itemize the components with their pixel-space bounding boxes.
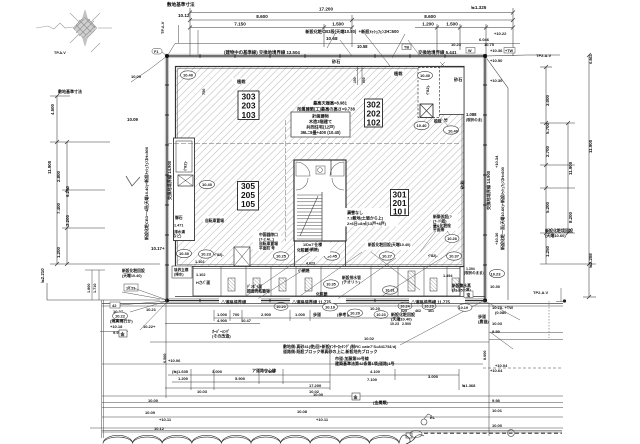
svg-text:7.150: 7.150 <box>234 22 246 27</box>
svg-text:+10.50: +10.50 <box>490 58 503 63</box>
svg-text:10.19: 10.19 <box>459 306 469 310</box>
svg-text:17.200: 17.200 <box>309 383 322 388</box>
gravel room top-right <box>439 67 464 115</box>
svg-text:新設化粧CB3段(天端10.80) +新設ﾒｯｼｭﾌｪﾝｽ: 新設化粧CB3段(天端10.80) +新設ﾒｯｼｭﾌｪﾝｽH=600 <box>305 28 399 35</box>
svg-text:+10.22: +10.22 <box>494 31 507 36</box>
svg-text:TB: TB <box>404 46 409 50</box>
svg-text:新設集水蒸: 新設集水蒸 <box>452 283 471 288</box>
svg-text:1.250: 1.250 <box>545 245 550 257</box>
svg-text:10.68: 10.68 <box>326 36 338 41</box>
svg-text:新設化粧CB3〜4段(天端10.40)+新設ﾒｯｼｭﾌｪﾝｽ: 新設化粧CB3〜4段(天端10.40)+新設ﾒｯｼｭﾌｪﾝｽH=800 <box>143 146 149 240</box>
svg-text:10.40: 10.40 <box>183 73 194 78</box>
svg-text:+10.18: +10.18 <box>110 324 123 329</box>
svg-text:10 I: 10 I <box>393 207 406 217</box>
svg-text:1.500: 1.500 <box>332 22 344 27</box>
svg-text:10.09: 10.09 <box>145 410 156 415</box>
left bottom annotation <box>172 266 192 278</box>
svg-text:≒2.210: ≒2.210 <box>40 268 45 283</box>
unit note text <box>345 208 398 227</box>
sidewalk note lines <box>283 343 397 366</box>
svg-text:1.494: 1.494 <box>443 274 453 278</box>
leaders from top labels <box>131 25 520 82</box>
svg-text:750: 750 <box>202 89 206 95</box>
site boundary <box>165 54 487 303</box>
building hatched body <box>176 67 465 267</box>
svg-text:10.40: 10.40 <box>202 182 213 187</box>
svg-text:2.800: 2.800 <box>56 170 61 182</box>
project info text block <box>291 100 355 138</box>
svg-text:462: 462 <box>415 309 421 313</box>
svg-text:10.47: 10.47 <box>241 318 252 323</box>
svg-text:1.500: 1.500 <box>446 22 458 27</box>
svg-text:宝: 宝 <box>467 293 471 298</box>
svg-text:0.861: 0.861 <box>588 53 593 64</box>
svg-text:10.30: 10.30 <box>179 251 190 256</box>
svg-text:EL: EL <box>430 415 436 420</box>
svg-text:10.20: 10.20 <box>276 305 286 309</box>
svg-text:(排水): (排水) <box>174 272 184 277</box>
svg-text:10.40: 10.40 <box>416 123 427 128</box>
svg-text:10.00: 10.00 <box>492 423 503 428</box>
stall door arc <box>196 268 209 281</box>
svg-text:敷地基準寸法: 敷地基準寸法 <box>58 88 82 94</box>
svg-text:平面帯: 平面帯 <box>433 227 445 232</box>
svg-text:F1: F1 <box>154 50 158 54</box>
svg-text:5.200: 5.200 <box>545 201 550 213</box>
svg-text:1.088: 1.088 <box>466 112 477 117</box>
hall wall extensions <box>294 241 296 267</box>
svg-text:10.19: 10.19 <box>325 305 336 310</box>
svg-text:+10.36: +10.36 <box>490 48 503 53</box>
svg-text:中国器除口: 中国器除口 <box>259 232 278 237</box>
scallop curb <box>103 433 424 444</box>
svg-text:1.800: 1.800 <box>87 283 91 293</box>
svg-text:10.12: 10.12 <box>178 13 190 18</box>
svg-text:9.98: 9.98 <box>492 398 501 403</box>
small boxed marks on boundary <box>152 44 515 54</box>
svg-text:1.200: 1.200 <box>56 246 61 258</box>
svg-text:(その改造): (その改造) <box>212 333 231 339</box>
svg-text:ｲ’82)-: ｲ’82)- <box>214 252 224 257</box>
svg-text:1.102: 1.102 <box>196 273 206 277</box>
svg-text:10.37: 10.37 <box>449 254 460 259</box>
door arcs <box>296 162 344 190</box>
svg-text:自転車置場: 自転車置場 <box>205 218 224 223</box>
check mark <box>126 176 140 186</box>
svg-text:6.200: 6.200 <box>65 185 70 197</box>
svg-text:最高天端高=8.981: 最高天端高=8.981 <box>313 100 348 107</box>
svg-text:砂石: 砂石 <box>331 58 340 65</box>
svg-text:150: 150 <box>353 77 357 83</box>
svg-text:10.27: 10.27 <box>382 254 393 259</box>
svg-text:10.23: 10.23 <box>390 322 399 326</box>
svg-text:1.102: 1.102 <box>195 260 205 264</box>
misc labels inside plan <box>202 58 482 258</box>
svg-text:新設排水管: 新設排水管 <box>342 275 361 280</box>
svg-text:10.31: 10.31 <box>385 289 395 293</box>
svg-text:36L=8畳+400 (10.40): 36L=8畳+400 (10.40) <box>300 129 341 136</box>
misc labels white underlays <box>203 70 412 256</box>
svg-text:砂利: 砂利 <box>459 181 466 190</box>
svg-text:1.710: 1.710 <box>93 283 97 293</box>
svg-text:10.09: 10.09 <box>127 117 139 122</box>
gravel strip east <box>464 67 483 297</box>
boundary labels <box>143 49 505 250</box>
svg-text:ｲ’82)-: ｲ’82)- <box>428 253 438 258</box>
svg-text:(≒)1.605: (≒)1.605 <box>172 369 189 374</box>
svg-text:11.900: 11.900 <box>47 160 52 174</box>
svg-text:W: W <box>468 49 472 53</box>
svg-text:+TW: +TW <box>505 49 514 53</box>
leader diagonals bottom area <box>120 40 520 345</box>
svg-text:竹: 竹 <box>443 118 448 123</box>
svg-text:(小網焼): (小網焼) <box>305 247 320 252</box>
svg-text:7.2敷地(土間から上): 7.2敷地(土間から上) <box>347 215 384 221</box>
svg-text:+10.30: +10.30 <box>494 232 499 245</box>
svg-text:平面町 号: 平面町 号 <box>259 246 275 251</box>
svg-text:10.08: 10.08 <box>297 409 308 414</box>
svg-text:10.23: 10.23 <box>451 42 462 47</box>
svg-text:自転車置場: 自転車置場 <box>259 241 278 246</box>
stairs treads <box>297 195 322 239</box>
svg-text:1.200: 1.200 <box>422 22 434 27</box>
svg-text:4.623: 4.623 <box>306 262 315 266</box>
svg-text:顔面売拓職場: 顔面売拓職場 <box>246 289 270 294</box>
svg-text:(天端10.40): (天端10.40) <box>391 316 412 322</box>
svg-text:(7-2 AL:): (7-2 AL:) <box>259 238 275 242</box>
svg-text:10.24: 10.24 <box>400 305 410 309</box>
svg-text:漏雪なし: 漏雪なし <box>347 209 363 215</box>
svg-text:交換地境界線 14.900: 交換地境界線 14.900 <box>485 170 492 210</box>
svg-text:2.500: 2.500 <box>402 322 411 326</box>
room number boxes <box>238 91 409 217</box>
svg-text:8.200: 8.200 <box>568 211 573 223</box>
svg-text:11.900: 11.900 <box>588 139 593 153</box>
svg-text:6.500: 6.500 <box>163 353 167 363</box>
svg-text:7.100: 7.100 <box>367 377 378 382</box>
svg-text:1/Do7’仕様: 1/Do7’仕様 <box>303 242 322 247</box>
svg-text:3.000: 3.000 <box>212 369 223 374</box>
road area horizontal lines <box>90 288 566 438</box>
svg-text:≒1.368: ≒1.368 <box>462 383 476 388</box>
bottom stall strip <box>175 267 485 297</box>
svg-text:10.25: 10.25 <box>276 254 287 259</box>
svg-text:10.40: 10.40 <box>420 73 431 78</box>
svg-text:≒2.208: ≒2.208 <box>588 253 593 268</box>
svg-text:+10.06: +10.06 <box>168 358 181 363</box>
svg-text:105: 105 <box>241 199 255 209</box>
svg-text:+10.04: +10.04 <box>495 363 508 368</box>
svg-text:4.900: 4.900 <box>217 318 228 323</box>
scattered ellipse elevation labels in plan <box>177 71 462 260</box>
svg-text:10.03: 10.03 <box>197 389 208 394</box>
svg-text:≒1.325: ≒1.325 <box>471 5 487 10</box>
svg-text:歩道: 歩道 <box>313 311 321 317</box>
svg-text:(金属類): (金属類) <box>373 399 388 405</box>
svg-text:3.200: 3.200 <box>65 214 70 226</box>
svg-text:10.00: 10.00 <box>313 392 324 397</box>
east offset line <box>485 55 527 300</box>
svg-text:42: 42 <box>112 303 117 308</box>
svg-text:TP2.A.V: TP2.A.V <box>536 53 551 58</box>
svg-text:10.20: 10.20 <box>370 306 381 311</box>
svg-text:10.23: 10.23 <box>491 272 502 277</box>
svg-text:(0.080: (0.080 <box>495 310 507 315</box>
svg-text:1.200: 1.200 <box>178 376 189 381</box>
benchmark circle symbols <box>410 414 514 438</box>
svg-text:2×6日=8㎡(13戸+8戸): 2×6日=8㎡(13戸+8戸) <box>347 220 387 226</box>
svg-text:8.000: 8.000 <box>483 350 487 360</box>
svg-text:交換地境界線 14.900: 交換地境界線 14.900 <box>166 160 173 200</box>
svg-text:5.900: 5.900 <box>235 376 246 381</box>
svg-text:1.471: 1.471 <box>174 224 184 228</box>
svg-text:10.35: 10.35 <box>326 283 336 287</box>
svg-text:8.600: 8.600 <box>256 14 268 19</box>
svg-text:10.58: 10.58 <box>357 44 368 49</box>
svg-text:10.23: 10.23 <box>201 252 212 257</box>
svg-text:新設化粧回設(天端10.40): 新設化粧回設(天端10.40) <box>368 242 411 247</box>
svg-text:2.900: 2.900 <box>261 312 272 317</box>
left dimension column <box>47 94 160 300</box>
svg-text:3.000: 3.000 <box>545 94 550 106</box>
svg-text:ｲ’82)-: ｲ’82)- <box>183 160 188 171</box>
svg-text:TP.A.V: TP.A.V <box>160 21 165 34</box>
svg-text:7.400: 7.400 <box>56 202 61 214</box>
svg-text:10.22+: 10.22+ <box>143 324 156 329</box>
svg-text:10.30: 10.30 <box>490 284 501 289</box>
svg-text:4.100: 4.100 <box>370 369 381 374</box>
svg-text:+10.64: +10.64 <box>490 368 503 373</box>
svg-text:9.99: 9.99 <box>492 329 501 334</box>
bicycle X box <box>234 247 250 266</box>
top dimension block <box>188 8 515 56</box>
svg-text:10.03: 10.03 <box>492 321 503 326</box>
svg-text:境界立標: 境界立標 <box>174 267 189 272</box>
svg-text:10.01: 10.01 <box>492 408 503 413</box>
svg-text:10.29: 10.29 <box>424 305 434 309</box>
road boundary texts <box>219 299 465 319</box>
svg-text:新築仮設(?: 新築仮設(? <box>433 214 452 219</box>
svg-text:小網焼: 小網焼 <box>297 268 310 273</box>
NE annotation block <box>431 214 458 232</box>
svg-text:600: 600 <box>362 77 366 83</box>
shaft room with X <box>418 68 440 118</box>
svg-text:植栽: 植栽 <box>236 78 246 85</box>
svg-text:103: 103 <box>242 110 256 120</box>
svg-text:10.02: 10.02 <box>364 336 375 341</box>
svg-text:ｲ’82)-: ｲ’82)- <box>425 84 430 95</box>
svg-text:+10.11: +10.11 <box>316 417 329 422</box>
svg-text:(天端10.60): (天端10.60) <box>545 232 566 238</box>
north compass <box>36 10 112 52</box>
svg-text:10.20: 10.20 <box>350 311 361 316</box>
svg-text:(7-ド紙): (7-ド紙) <box>433 219 447 224</box>
svg-text:御石: 御石 <box>174 215 183 220</box>
svg-text:8.600: 8.600 <box>424 14 436 19</box>
svg-text:新設化粧回設: 新設化粧回設 <box>122 268 145 273</box>
svg-text:+10.34: +10.34 <box>494 155 499 168</box>
svg-text:+10.30: +10.30 <box>490 78 503 83</box>
svg-text:砂石: 砂石 <box>453 76 462 83</box>
svg-text:1.000: 1.000 <box>295 312 306 317</box>
svg-text:(天端10.40): (天端10.40) <box>122 273 142 278</box>
svg-text:など): など) <box>173 233 182 238</box>
svg-text:461: 461 <box>428 309 434 313</box>
svg-text:10.75: 10.75 <box>484 42 495 47</box>
svg-text:Hさﾊﾟ面: Hさﾊﾟ面 <box>196 280 210 285</box>
svg-text:700: 700 <box>233 312 240 317</box>
svg-text:2.900: 2.900 <box>265 369 276 374</box>
center dashed line horizontal <box>167 143 460 145</box>
svg-text:10.21: 10.21 <box>146 307 157 312</box>
svg-text:10.28: 10.28 <box>447 237 457 241</box>
svg-text:(現状のまま): (現状のまま) <box>464 270 484 275</box>
svg-text:+10.11: +10.11 <box>159 417 172 422</box>
svg-text:(建物中の基準線) 交換地境界線 13.504: (建物中の基準線) 交換地境界線 13.504 <box>224 49 300 56</box>
svg-text:3.000: 3.000 <box>428 374 439 379</box>
svg-text:1.000: 1.000 <box>217 312 228 317</box>
center dashed line vertical <box>285 120 287 241</box>
svg-text:10.17+: 10.17+ <box>151 246 165 251</box>
svg-text:10.23: 10.23 <box>376 313 386 317</box>
svg-text:交換地境界線 5.441: 交換地境界線 5.441 <box>418 49 457 56</box>
svg-text:10.00: 10.00 <box>148 398 159 403</box>
svg-text:植栽: 植栽 <box>433 119 442 124</box>
svg-text:△道路境界線: △道路境界線 <box>220 299 247 306</box>
svg-text:新設化粧一面(天端10.60)+新設ﾒｯｼｭﾌｪﾝｽH=60: 新設化粧一面(天端10.60)+新設ﾒｯｼｭﾌｪﾝｽH=600 <box>499 166 505 250</box>
mini dim 600 <box>356 67 364 85</box>
svg-text:10.12: 10.12 <box>154 426 165 431</box>
svg-text:植栽: 植栽 <box>393 70 403 77</box>
left room column <box>174 138 195 241</box>
svg-text:(現状のま): (現状のま) <box>466 117 482 122</box>
svg-text:(チオリト): (チオリト) <box>342 280 360 285</box>
svg-text:102: 102 <box>367 118 381 128</box>
svg-text:敷地基準寸法: 敷地基準寸法 <box>167 1 195 8</box>
svg-text:建築基準法第42条第1項(道路)1号: 建築基準法第42条第1項(道路)1号 <box>335 360 395 366</box>
svg-text:11.900: 11.900 <box>568 161 573 175</box>
svg-text:所属建築(工)最高の高さ=9.738: 所属建築(工)最高の高さ=9.738 <box>297 106 355 113</box>
right dimension columns <box>527 53 596 299</box>
svg-text:10.09: 10.09 <box>131 74 142 79</box>
svg-text:TP2.A.V: TP2.A.V <box>533 290 548 295</box>
svg-text:2.700: 2.700 <box>545 145 550 157</box>
svg-text:10.40: 10.40 <box>448 129 459 134</box>
central stair hall <box>294 160 346 241</box>
svg-text:化粧鏡: 化粧鏡 <box>316 292 328 297</box>
road center dims <box>165 303 489 436</box>
road dims row1 <box>165 310 395 324</box>
svg-text:5.700: 5.700 <box>545 122 550 134</box>
svg-text:TP.A.V: TP.A.V <box>54 51 66 55</box>
svg-text:4.500: 4.500 <box>50 103 55 115</box>
svg-text:(農協): (農協) <box>478 318 489 324</box>
svg-text:(現実現行か): (現実現行か) <box>110 318 133 324</box>
svg-text:17.200: 17.200 <box>319 7 333 12</box>
